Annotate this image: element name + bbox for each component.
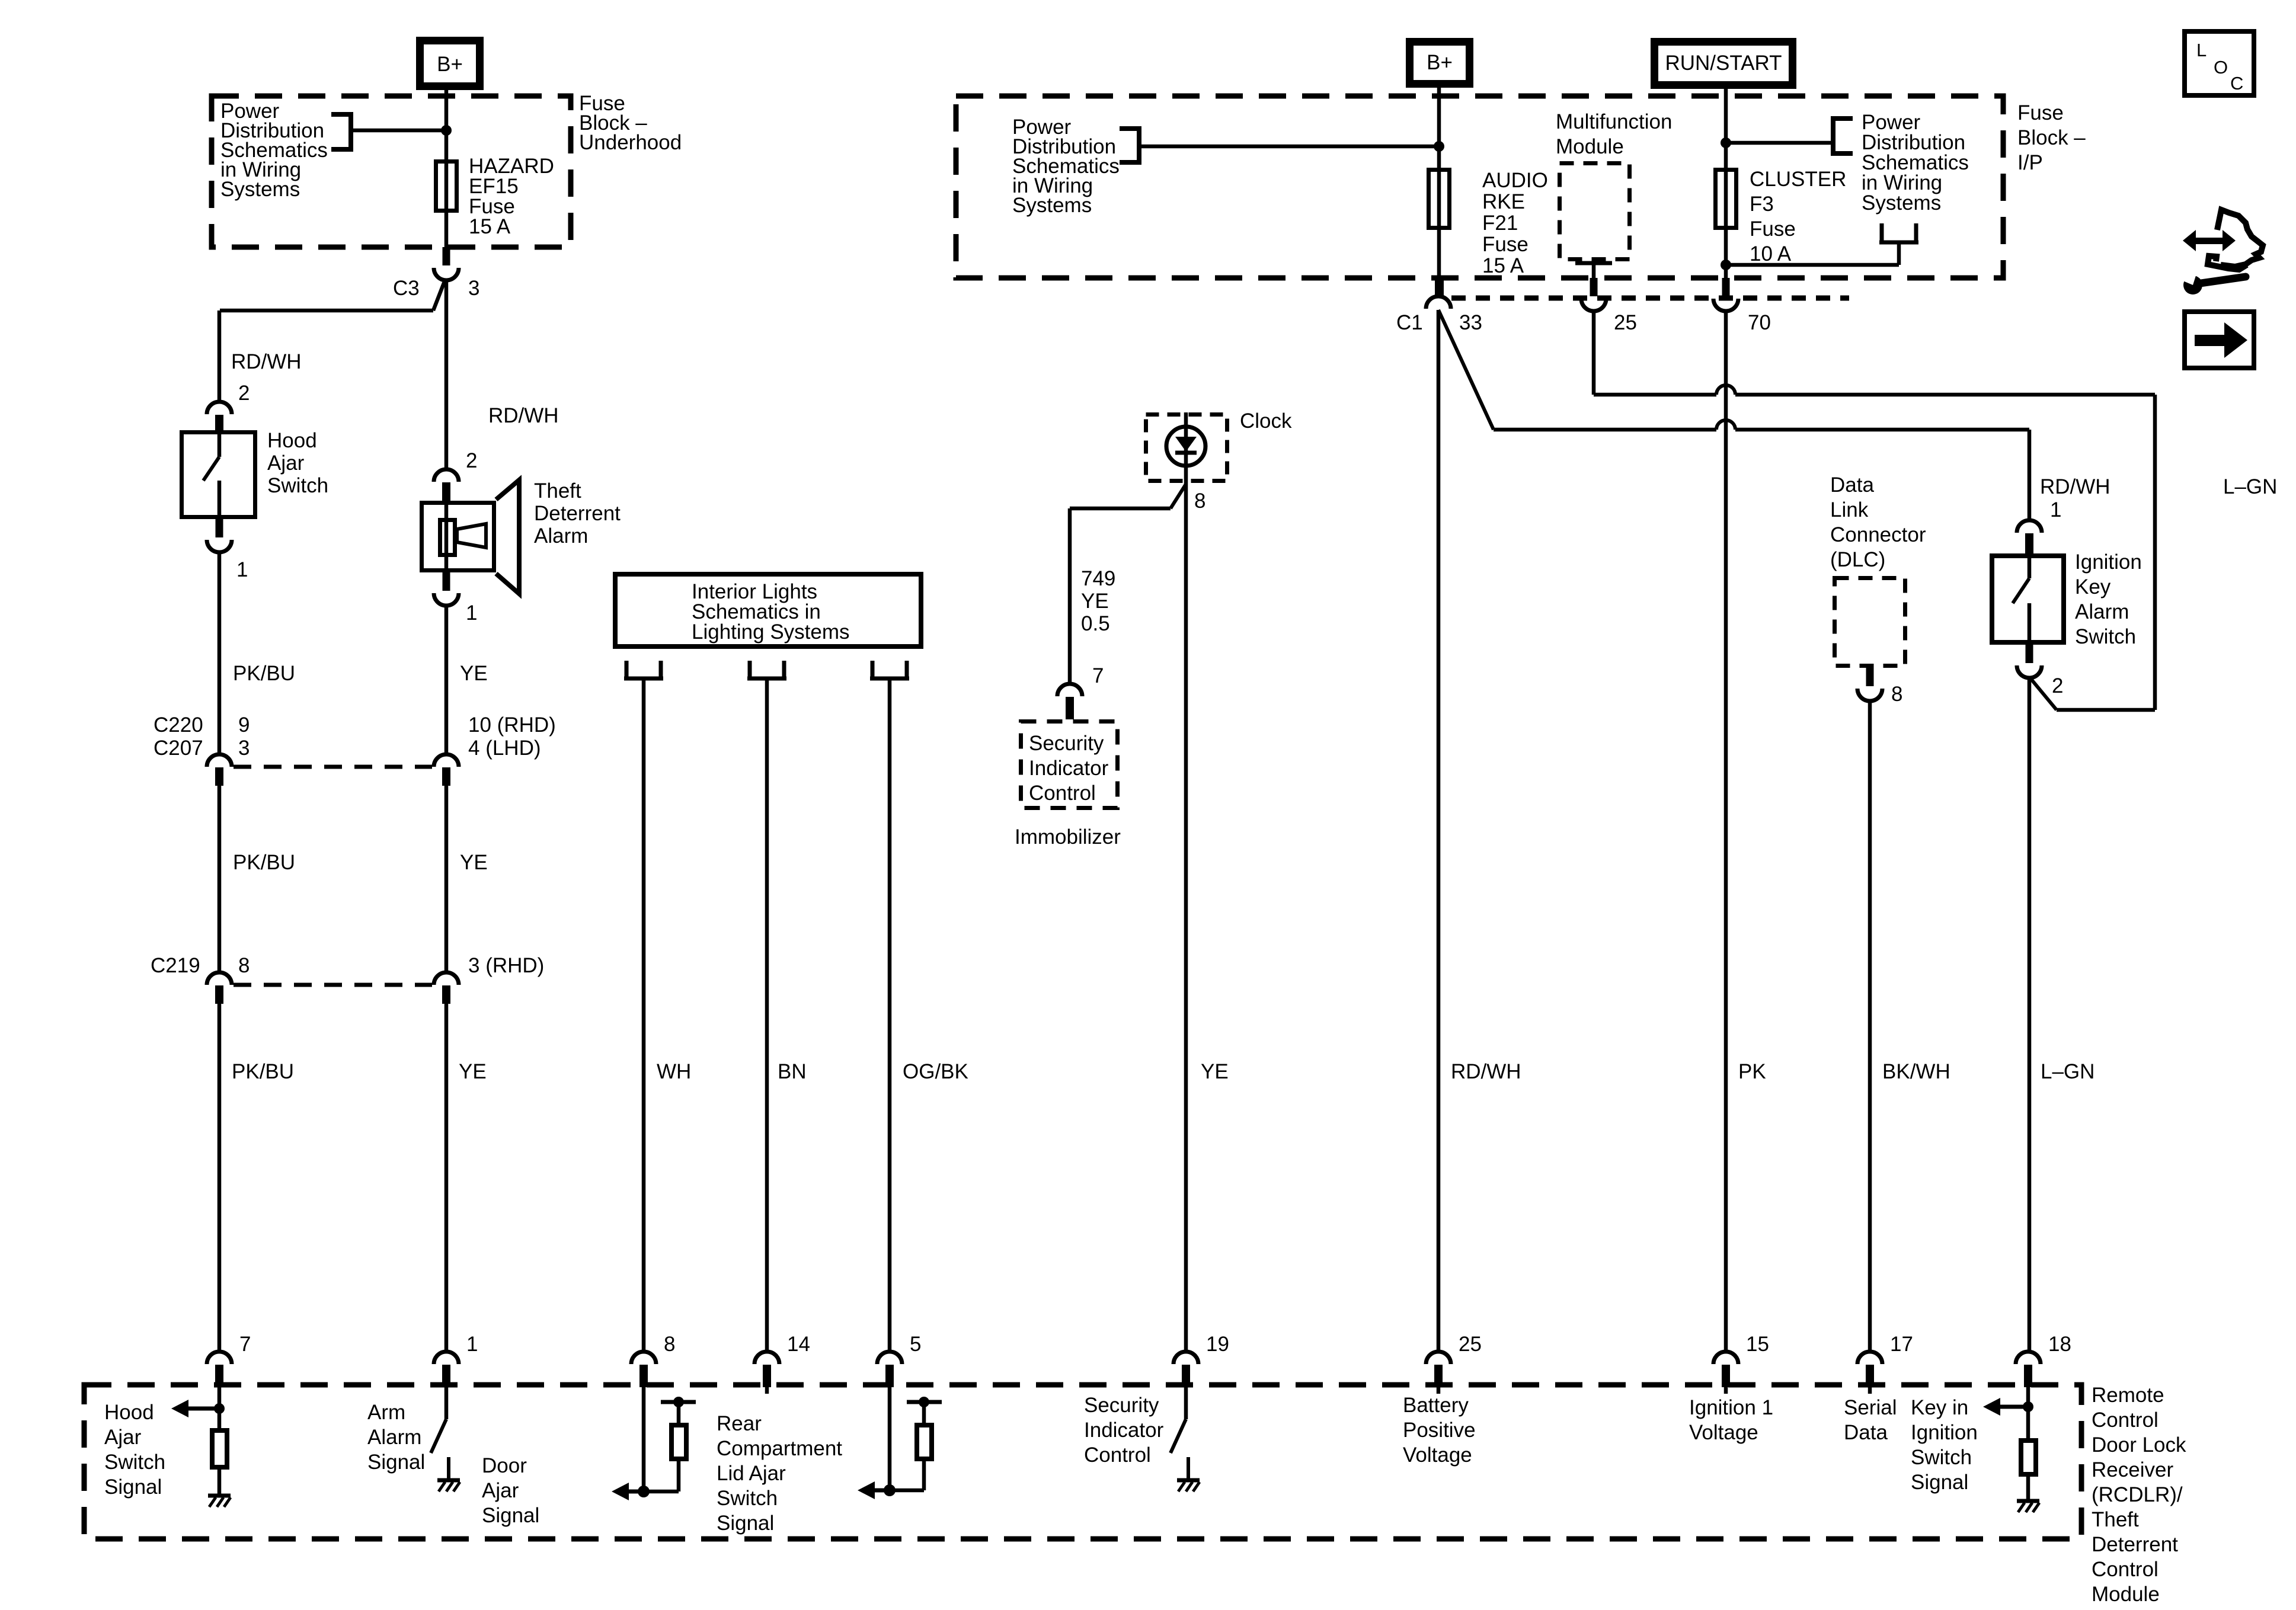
svg-text:C3: C3 xyxy=(393,277,420,300)
svg-text:Rear: Rear xyxy=(717,1412,762,1435)
svg-text:O: O xyxy=(2214,57,2228,78)
svg-text:YE: YE xyxy=(459,1060,487,1083)
svg-text:3 (RHD): 3 (RHD) xyxy=(468,954,544,977)
svg-text:10 A: 10 A xyxy=(1750,242,1792,265)
svg-text:3: 3 xyxy=(238,737,250,760)
svg-text:C220: C220 xyxy=(154,713,203,737)
svg-text:Alarm: Alarm xyxy=(534,524,588,548)
svg-text:Deterrent: Deterrent xyxy=(2092,1533,2178,1556)
svg-text:Arm: Arm xyxy=(367,1401,405,1424)
svg-text:Switch: Switch xyxy=(1911,1446,1972,1469)
svg-text:15 A: 15 A xyxy=(469,215,511,238)
svg-text:1: 1 xyxy=(236,558,248,581)
svg-text:749: 749 xyxy=(1081,567,1115,590)
svg-text:RD/WH: RD/WH xyxy=(1451,1060,1521,1083)
svg-text:Ajar: Ajar xyxy=(482,1479,519,1502)
svg-text:Positive: Positive xyxy=(1403,1419,1476,1442)
svg-text:Switch: Switch xyxy=(104,1451,165,1474)
svg-text:C1: C1 xyxy=(1396,311,1423,334)
svg-text:1: 1 xyxy=(466,1333,478,1356)
svg-text:I/P: I/P xyxy=(2017,151,2043,174)
svg-text:YE: YE xyxy=(460,662,488,685)
svg-text:Clock: Clock xyxy=(1240,409,1292,433)
svg-text:Serial: Serial xyxy=(1844,1396,1897,1419)
svg-text:BN: BN xyxy=(778,1060,807,1083)
svg-text:Fuse: Fuse xyxy=(1750,217,1796,241)
svg-text:RD/WH: RD/WH xyxy=(488,404,559,427)
svg-text:Fuse: Fuse xyxy=(2017,101,2064,124)
svg-text:70: 70 xyxy=(1748,311,1771,334)
svg-text:Theft: Theft xyxy=(2092,1508,2139,1531)
svg-text:0.5: 0.5 xyxy=(1081,612,1110,635)
svg-text:Security: Security xyxy=(1029,732,1104,755)
svg-text:Lighting Systems: Lighting Systems xyxy=(692,620,850,644)
svg-text:1: 1 xyxy=(2050,498,2061,521)
svg-text:10 (RHD): 10 (RHD) xyxy=(468,713,556,737)
svg-text:Signal: Signal xyxy=(717,1512,774,1535)
svg-text:RKE: RKE xyxy=(1482,190,1525,213)
svg-text:Battery: Battery xyxy=(1403,1394,1469,1417)
svg-text:Indicator: Indicator xyxy=(1084,1419,1164,1442)
svg-text:Deterrent: Deterrent xyxy=(534,502,621,525)
svg-text:Voltage: Voltage xyxy=(1403,1443,1472,1467)
svg-text:1: 1 xyxy=(466,601,477,625)
svg-text:Signal: Signal xyxy=(104,1475,162,1499)
svg-text:F3: F3 xyxy=(1750,193,1774,216)
svg-text:Data: Data xyxy=(1830,473,1874,497)
svg-text:5: 5 xyxy=(910,1333,921,1356)
svg-text:14: 14 xyxy=(787,1333,810,1356)
svg-text:19: 19 xyxy=(1206,1333,1229,1356)
svg-text:F21: F21 xyxy=(1482,212,1518,235)
svg-text:8: 8 xyxy=(238,954,250,977)
svg-text:15 A: 15 A xyxy=(1482,254,1524,277)
svg-text:Voltage: Voltage xyxy=(1689,1421,1758,1444)
svg-text:2: 2 xyxy=(238,382,250,405)
svg-text:Signal: Signal xyxy=(482,1504,539,1527)
svg-text:Systems: Systems xyxy=(220,178,300,201)
svg-text:WH: WH xyxy=(657,1060,691,1083)
svg-text:Data: Data xyxy=(1844,1421,1888,1444)
svg-text:PK/BU: PK/BU xyxy=(232,1060,294,1083)
svg-text:Security: Security xyxy=(1084,1394,1159,1417)
svg-text:Underhood: Underhood xyxy=(579,131,682,154)
svg-text:Ajar: Ajar xyxy=(104,1426,142,1449)
svg-text:PK/BU: PK/BU xyxy=(233,851,295,874)
svg-text:L–GN: L–GN xyxy=(2223,475,2277,498)
svg-text:Lid Ajar: Lid Ajar xyxy=(717,1462,786,1485)
svg-text:Hood: Hood xyxy=(104,1401,154,1424)
svg-text:Ignition 1: Ignition 1 xyxy=(1689,1396,1773,1419)
svg-text:Remote: Remote xyxy=(2092,1384,2164,1407)
svg-text:33: 33 xyxy=(1459,311,1482,334)
svg-text:L–GN: L–GN xyxy=(2041,1060,2094,1083)
svg-text:RUN/START: RUN/START xyxy=(1665,52,1782,75)
svg-text:PK: PK xyxy=(1738,1060,1766,1083)
svg-text:Fuse: Fuse xyxy=(1482,233,1528,256)
svg-text:18: 18 xyxy=(2048,1333,2071,1356)
svg-text:Module: Module xyxy=(1556,135,1624,158)
svg-text:25: 25 xyxy=(1459,1333,1482,1356)
svg-text:Door Lock: Door Lock xyxy=(2092,1433,2186,1457)
svg-text:Key: Key xyxy=(2075,575,2111,598)
svg-text:YE: YE xyxy=(1201,1060,1229,1083)
svg-text:2: 2 xyxy=(466,449,477,472)
svg-text:8: 8 xyxy=(1194,489,1205,513)
svg-text:(RCDLR)/: (RCDLR)/ xyxy=(2092,1483,2183,1506)
svg-text:Ignition: Ignition xyxy=(1911,1421,1978,1444)
svg-text:L: L xyxy=(2196,40,2207,60)
svg-text:Alarm: Alarm xyxy=(367,1426,421,1449)
svg-text:OG/BK: OG/BK xyxy=(903,1060,968,1083)
svg-text:Compartment: Compartment xyxy=(717,1437,842,1460)
svg-text:YE: YE xyxy=(460,851,488,874)
svg-text:Theft: Theft xyxy=(534,479,581,502)
svg-text:Switch: Switch xyxy=(267,474,328,497)
svg-text:Control: Control xyxy=(2092,1409,2159,1432)
svg-text:Block –: Block – xyxy=(2017,126,2086,149)
svg-text:9: 9 xyxy=(238,713,250,737)
svg-text:Indicator: Indicator xyxy=(1029,757,1109,780)
svg-text:Receiver: Receiver xyxy=(2092,1458,2173,1481)
svg-text:Immobilizer: Immobilizer xyxy=(1015,825,1121,849)
svg-text:4 (LHD): 4 (LHD) xyxy=(468,737,541,760)
svg-text:7: 7 xyxy=(239,1333,251,1356)
svg-text:Connector: Connector xyxy=(1830,523,1926,546)
svg-text:B+: B+ xyxy=(437,53,463,76)
svg-text:Ignition: Ignition xyxy=(2075,550,2142,574)
svg-text:Ajar: Ajar xyxy=(267,452,305,475)
svg-text:Module: Module xyxy=(2092,1583,2160,1606)
svg-text:RD/WH: RD/WH xyxy=(231,350,302,373)
svg-text:Link: Link xyxy=(1830,498,1869,521)
svg-text:Control: Control xyxy=(1084,1443,1151,1467)
svg-text:8: 8 xyxy=(664,1333,675,1356)
svg-text:Systems: Systems xyxy=(1012,194,1092,217)
svg-text:Control: Control xyxy=(1029,782,1096,805)
svg-text:Key in: Key in xyxy=(1911,1396,1968,1419)
svg-text:Signal: Signal xyxy=(367,1451,425,1474)
svg-text:(DLC): (DLC) xyxy=(1830,548,1885,571)
svg-text:Alarm: Alarm xyxy=(2075,600,2129,623)
svg-text:YE: YE xyxy=(1081,590,1109,613)
svg-text:25: 25 xyxy=(1614,311,1637,334)
svg-text:PK/BU: PK/BU xyxy=(233,662,295,685)
svg-text:Signal: Signal xyxy=(1911,1471,1968,1494)
svg-text:C: C xyxy=(2230,73,2243,94)
svg-text:Hood: Hood xyxy=(267,429,317,452)
svg-text:BK/WH: BK/WH xyxy=(1882,1060,1950,1083)
svg-text:Switch: Switch xyxy=(2075,625,2136,648)
svg-text:CLUSTER: CLUSTER xyxy=(1750,168,1846,191)
svg-text:8: 8 xyxy=(1891,683,1902,706)
svg-text:Switch: Switch xyxy=(717,1487,778,1510)
svg-text:15: 15 xyxy=(1746,1333,1769,1356)
svg-text:AUDIO: AUDIO xyxy=(1482,169,1548,192)
svg-text:B+: B+ xyxy=(1427,51,1453,74)
svg-text:7: 7 xyxy=(1092,664,1104,687)
svg-text:Control: Control xyxy=(2092,1558,2159,1581)
svg-text:RD/WH: RD/WH xyxy=(2040,475,2110,498)
svg-text:C207: C207 xyxy=(154,737,203,760)
svg-text:C219: C219 xyxy=(151,954,200,977)
svg-text:Multifunction: Multifunction xyxy=(1556,110,1672,133)
svg-text:17: 17 xyxy=(1890,1333,1913,1356)
svg-text:2: 2 xyxy=(2052,674,2063,697)
svg-text:3: 3 xyxy=(468,277,479,300)
svg-text:Systems: Systems xyxy=(1862,191,1941,215)
svg-text:Door: Door xyxy=(482,1454,527,1477)
